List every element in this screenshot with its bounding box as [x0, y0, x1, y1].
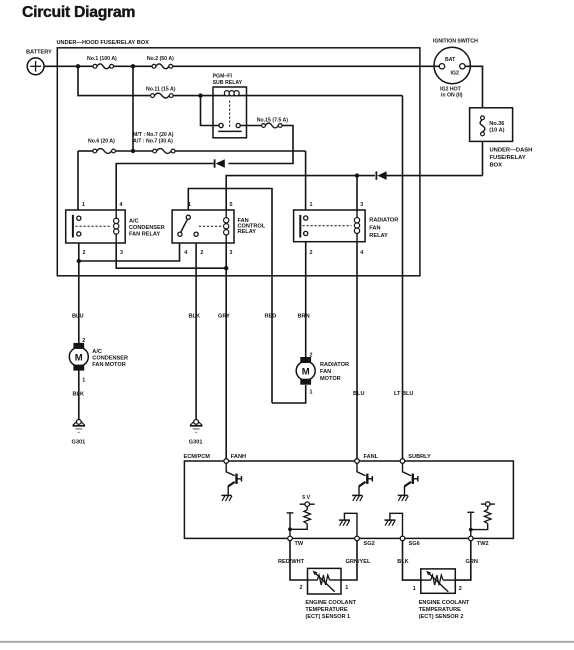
svg-text:3: 3: [229, 250, 232, 256]
wire: under-dash fuse down to row F: [482, 141, 484, 175]
svg-text:FUSE/RELAY: FUSE/RELAY: [490, 155, 526, 161]
svg-text:BAT: BAT: [445, 57, 456, 63]
wire: radiator pin2 BRN drop to motor: [305, 242, 307, 357]
ECT sensor 1: [300, 568, 357, 620]
wire: radiator pin4 BLU drop to FANL: [356, 242, 358, 459]
svg-text:No.15 (7.5 A): No.15 (7.5 A): [257, 117, 289, 123]
ignition switch SW1: [433, 39, 478, 99]
5V pull-up (TW2): [467, 502, 495, 536]
svg-text:SG2: SG2: [364, 541, 375, 547]
wire: row B No.11/coil row to PGM relay and right: [173, 95, 402, 97]
node FANH: [224, 454, 246, 463]
svg-text:FAN MOTOR: FAN MOTOR: [92, 362, 125, 368]
wire: PGM contact out to fuse No.15: [240, 125, 261, 127]
wire: A/C pin3 to GRY line: [116, 243, 226, 268]
label GRN/YEL: [346, 559, 371, 565]
svg-text:ENGINE COOLANT: ENGINE COOLANT: [419, 600, 470, 606]
svg-text:No.36: No.36: [489, 121, 504, 127]
wire: row D right drop to radiator relay pin 1: [305, 151, 307, 210]
svg-text:5: 5: [230, 202, 233, 208]
svg-text:2: 2: [310, 250, 313, 256]
svg-text:BLK: BLK: [397, 559, 409, 565]
svg-text:RADIATOR: RADIATOR: [369, 218, 398, 224]
node: junction row D: [131, 149, 135, 153]
fuse No.2 (50 A): [147, 56, 174, 69]
fuse No.6 (20 A): [88, 139, 115, 154]
svg-text:A/T : No.7 (30 A): A/T : No.7 (30 A): [133, 139, 173, 145]
svg-text:FAN RELAY: FAN RELAY: [129, 232, 160, 238]
label BLK (sensor 2): [397, 559, 409, 565]
svg-text:3: 3: [360, 202, 363, 208]
node: junction GRY: [224, 266, 228, 270]
svg-text:G301: G301: [72, 439, 86, 445]
bottom separator rule: [0, 641, 574, 643]
fuse No.1 (100 A): [87, 56, 117, 69]
svg-text:1: 1: [82, 378, 85, 384]
label BLU (radiator pin4 wire): [353, 391, 365, 397]
svg-text:RELAY: RELAY: [369, 233, 388, 239]
svg-text:RELAY: RELAY: [238, 229, 257, 235]
svg-text:2: 2: [459, 586, 462, 592]
relay K2 fan control relay: [172, 202, 266, 256]
svg-text:GRN/YEL: GRN/YEL: [346, 559, 371, 565]
fuse No.7 (M/T 20 A, A/T 30 A): [133, 132, 175, 154]
svg-text:LT BLU: LT BLU: [394, 391, 413, 397]
svg-text:GRY: GRY: [218, 314, 230, 320]
wire: TW to ECT sensor 1: [290, 541, 308, 580]
wire: drop No.1/No.2 junction to row D: [132, 66, 134, 151]
svg-text:FAN: FAN: [369, 225, 380, 231]
svg-text:SUBRLY: SUBRLY: [408, 454, 431, 460]
ground stub (SG2 internal): [339, 513, 357, 536]
transistor Q1 (FANH): [221, 463, 241, 501]
label BLK (A/C motor ground wire): [73, 392, 85, 398]
svg-text:4: 4: [360, 250, 363, 256]
wire: row D left drop to A/C relay pin 1: [77, 151, 79, 210]
svg-text:GRN: GRN: [466, 559, 478, 565]
transistor Q3 (SUBRLY): [398, 463, 418, 501]
diode D2: [376, 171, 386, 180]
svg-text:2: 2: [200, 250, 203, 256]
svg-text:Circuit Diagram: Circuit Diagram: [22, 4, 135, 21]
wire: battery row A y=66.3: [44, 65, 439, 67]
svg-text:PGM–FI: PGM–FI: [213, 74, 233, 80]
PGM-FI sub relay U1: [213, 74, 247, 138]
wire: fan control pin 1 riser to RED drop: [188, 189, 272, 404]
svg-text:BATTERY: BATTERY: [26, 50, 52, 56]
motor M1 A/C condenser fan motor: [69, 338, 128, 384]
svg-text:G301: G301: [189, 439, 203, 445]
wire: LT BLU drop to SUBRLY: [402, 96, 404, 459]
svg-text:1: 1: [188, 202, 191, 208]
svg-text:UNDER—DASH: UNDER—DASH: [490, 147, 533, 153]
ground G301 (A/C motor): [72, 420, 86, 446]
svg-text:M: M: [75, 353, 83, 364]
node TW: [288, 536, 304, 547]
ground stub (SG6 internal): [384, 513, 402, 536]
label GRY: [218, 314, 230, 320]
wire: row E to A/C relay pin 4: [116, 164, 214, 211]
label RED: [265, 314, 277, 320]
battery: [26, 50, 52, 75]
wire: fan control pin3 GRY drop to FANH: [225, 243, 227, 459]
svg-text:SUB RELAY: SUB RELAY: [213, 80, 243, 86]
node SG2: [355, 536, 375, 547]
svg-text:IGNITION SWITCH: IGNITION SWITCH: [433, 39, 478, 45]
svg-text:No.6 (20 A): No.6 (20 A): [88, 139, 115, 145]
node: junction No.1/No.2: [131, 64, 135, 68]
svg-text:(10 A): (10 A): [489, 128, 504, 134]
svg-text:ENGINE COOLANT: ENGINE COOLANT: [305, 600, 356, 606]
svg-text:RED: RED: [265, 314, 277, 320]
svg-text:CONDENSER: CONDENSER: [92, 356, 128, 362]
svg-text:RED/WHT: RED/WHT: [278, 559, 305, 565]
wire: fan control pin2 BLK drop: [195, 243, 197, 420]
svg-text:BOX: BOX: [490, 163, 503, 169]
svg-text:SG6: SG6: [409, 541, 420, 547]
wire: junction down to radiator relay pin 3: [356, 176, 358, 210]
wire: BLU drop to A/C motor: [78, 261, 80, 343]
svg-text:1: 1: [310, 202, 313, 208]
svg-text:No.2 (50 A): No.2 (50 A): [147, 56, 174, 62]
svg-text:FANL: FANL: [364, 454, 379, 460]
node SUBRLY: [400, 454, 431, 463]
svg-text:M: M: [302, 367, 310, 378]
svg-text:IG2: IG2: [451, 71, 459, 77]
svg-text:1: 1: [413, 586, 416, 592]
diode D1: [215, 159, 225, 168]
svg-text:No.1 (100 A): No.1 (100 A): [87, 56, 117, 62]
svg-text:TEMPERATURE: TEMPERATURE: [419, 607, 461, 613]
svg-text:1: 1: [82, 202, 85, 208]
title: [22, 4, 135, 21]
fuse No.15 (7.5 A): [257, 117, 289, 128]
ground G301 (fan control relay BLK): [189, 420, 203, 446]
svg-text:2: 2: [83, 250, 86, 256]
node SG6: [400, 536, 420, 547]
svg-text:(ECT) SENSOR 1: (ECT) SENSOR 1: [305, 614, 350, 620]
5V pull-up (TW): [287, 495, 315, 536]
under-hood fuse/relay box: [57, 40, 420, 276]
node: junction battery/No.11: [76, 64, 80, 68]
svg-text:RADIATOR: RADIATOR: [320, 362, 349, 368]
svg-text:1: 1: [345, 585, 348, 591]
label GRN: [466, 559, 478, 565]
relay K1 A/C condenser fan relay: [66, 202, 165, 256]
svg-text:BLK: BLK: [189, 314, 201, 320]
svg-text:UNDER—HOOD FUSE/RELAY BOX: UNDER—HOOD FUSE/RELAY BOX: [57, 40, 150, 46]
svg-text:BLK: BLK: [73, 392, 85, 398]
svg-text:in ON (II): in ON (II): [441, 93, 463, 99]
motor M2 radiator fan motor: [296, 352, 349, 395]
svg-text:BRN: BRN: [298, 314, 310, 320]
svg-text:FAN: FAN: [320, 369, 331, 375]
wire: drop battery junction to row B: [78, 66, 151, 95]
fuse No.11 (15 A): [146, 87, 176, 99]
node FANL: [355, 454, 379, 463]
label RED/WHT: [278, 559, 305, 565]
relay K3 radiator fan relay: [294, 202, 399, 256]
wire: RED to radiator motor pin1: [272, 385, 306, 403]
wire: No.15 down to row E: [229, 126, 294, 164]
svg-text:4: 4: [184, 250, 187, 256]
svg-text:M/T : No.7 (20 A): M/T : No.7 (20 A): [133, 132, 174, 138]
ECM/PCM box: [184, 454, 514, 538]
svg-text:4: 4: [120, 202, 123, 208]
transistor Q2 (FANL): [352, 463, 372, 501]
node: junction A/C pin2 / BLU: [77, 259, 81, 263]
wire: row D No.6/No.7: [78, 150, 306, 152]
svg-text:A/C: A/C: [129, 219, 139, 225]
svg-text:FANH: FANH: [231, 454, 246, 460]
svg-text:A/C: A/C: [92, 349, 102, 355]
wire: PGM contact feed: [201, 96, 220, 126]
svg-text:2: 2: [300, 585, 303, 591]
ECT sensor 2: [413, 569, 470, 620]
svg-text:3: 3: [120, 250, 123, 256]
label BRN: [298, 314, 310, 320]
wire: SG6 to ECT sensor 2: [403, 541, 421, 580]
wire: ECT sensor 2 to TW2: [455, 541, 471, 580]
label BLK: [189, 314, 201, 320]
svg-text:No.11 (15 A): No.11 (15 A): [146, 87, 176, 93]
label BLU: [72, 314, 84, 320]
label LT BLU: [394, 391, 413, 397]
svg-text:ECM/PCM: ECM/PCM: [184, 454, 211, 460]
svg-text:TW: TW: [295, 541, 304, 547]
svg-text:TEMPERATURE: TEMPERATURE: [305, 607, 347, 613]
node TW2: [469, 536, 489, 547]
svg-text:1: 1: [310, 390, 313, 396]
under-dash fuse/relay box: [470, 108, 533, 169]
svg-text:MOTOR: MOTOR: [320, 376, 341, 382]
wire: A/C pin2 to fan control pin4: [79, 243, 180, 261]
wire: IG2 to under-dash fuse: [465, 66, 482, 108]
wire: A/C motor to ground: [78, 371, 80, 420]
wire: ECT sensor 1 to SG2: [341, 541, 357, 580]
wire: row F fan control pin 5 to under-dash: [226, 176, 375, 210]
node: junction radiator coil feed: [355, 173, 359, 177]
svg-text:BLU: BLU: [72, 314, 84, 320]
fuse No.36 (10 A): [480, 116, 485, 136]
node: junction row B to PGM contact: [198, 93, 202, 97]
svg-text:CONDENSER: CONDENSER: [129, 225, 165, 231]
svg-text:TW2: TW2: [477, 541, 489, 547]
svg-text:BLU: BLU: [353, 391, 365, 397]
svg-text:5 V: 5 V: [302, 495, 310, 501]
svg-text:(ECT) SENSOR 2: (ECT) SENSOR 2: [419, 614, 464, 620]
